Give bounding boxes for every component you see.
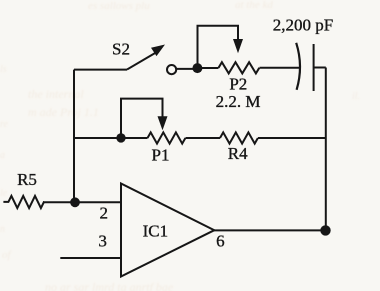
svg-text:2,200 pF: 2,200 pF bbox=[273, 16, 333, 35]
svg-text:a: a bbox=[0, 150, 5, 161]
wire circle to node bbox=[176, 68, 193, 70]
wire node to P2 bbox=[197, 67, 218, 69]
svg-text:2.2. M: 2.2. M bbox=[216, 92, 261, 111]
svg-text:ls: ls bbox=[0, 64, 7, 75]
svg-text:P1: P1 bbox=[152, 146, 170, 165]
svg-text:re: re bbox=[0, 119, 9, 130]
wire capacitor to right rail bbox=[314, 67, 326, 69]
P1 wiper arrowhead bbox=[158, 116, 168, 130]
wire right rail bbox=[325, 68, 327, 231]
svg-text:at the kd: at the kd bbox=[235, 0, 273, 11]
resistor R5 bbox=[3, 196, 44, 208]
wire pin 3 bbox=[60, 257, 121, 259]
switch S2 contact circle bbox=[167, 65, 176, 74]
svg-text:3: 3 bbox=[98, 231, 107, 250]
wire feedback row bbox=[74, 137, 148, 139]
wire R5 to pin2 bbox=[44, 201, 121, 203]
svg-text:le: le bbox=[0, 188, 8, 199]
wire R4 to right rail bbox=[258, 137, 326, 139]
node input junction dot bbox=[70, 197, 80, 207]
switch S2 lever bbox=[127, 53, 156, 70]
node output junction dot bbox=[320, 225, 330, 235]
svg-text:n: n bbox=[0, 224, 5, 235]
wire P2 to capacitor bbox=[260, 67, 302, 69]
switch S2 arrowhead bbox=[151, 45, 165, 57]
potentiometer P2 bbox=[219, 62, 260, 73]
node P2 junction dot bbox=[192, 63, 202, 73]
svg-text:P2: P2 bbox=[229, 75, 247, 94]
svg-text:R5: R5 bbox=[17, 170, 37, 189]
wire output pin 6 bbox=[214, 229, 326, 231]
svg-text:es sallows plu: es sallows plu bbox=[88, 0, 150, 12]
svg-text:il.: il. bbox=[352, 91, 360, 102]
capacitor C right plate bbox=[313, 44, 315, 91]
svg-text:S2: S2 bbox=[112, 40, 130, 59]
P2 wiper arrowhead bbox=[233, 39, 243, 53]
node P1 junction dot bbox=[116, 133, 125, 142]
wire left rail bbox=[73, 70, 75, 203]
wire P1 wiper loop bbox=[121, 99, 163, 138]
svg-text:no ar sar lmrd ta anrtf bae: no ar sar lmrd ta anrtf bae bbox=[45, 280, 174, 291]
svg-text:m ade Proj 1.1: m ade Proj 1.1 bbox=[28, 105, 99, 119]
capacitor C left curved plate bbox=[296, 43, 300, 90]
svg-text:2: 2 bbox=[100, 204, 109, 223]
svg-text:IC1: IC1 bbox=[143, 221, 169, 240]
potentiometer P1 bbox=[148, 132, 186, 143]
resistor R4 bbox=[220, 132, 258, 143]
svg-text:6: 6 bbox=[216, 231, 225, 250]
svg-text:R4: R4 bbox=[228, 144, 248, 163]
op-amp IC1 bbox=[121, 184, 214, 277]
svg-text:the internal: the internal bbox=[28, 87, 84, 101]
wire P1 to R4 bbox=[186, 137, 221, 139]
wire switch feed bbox=[74, 69, 127, 71]
wire P2 wiper loop bbox=[198, 26, 239, 68]
